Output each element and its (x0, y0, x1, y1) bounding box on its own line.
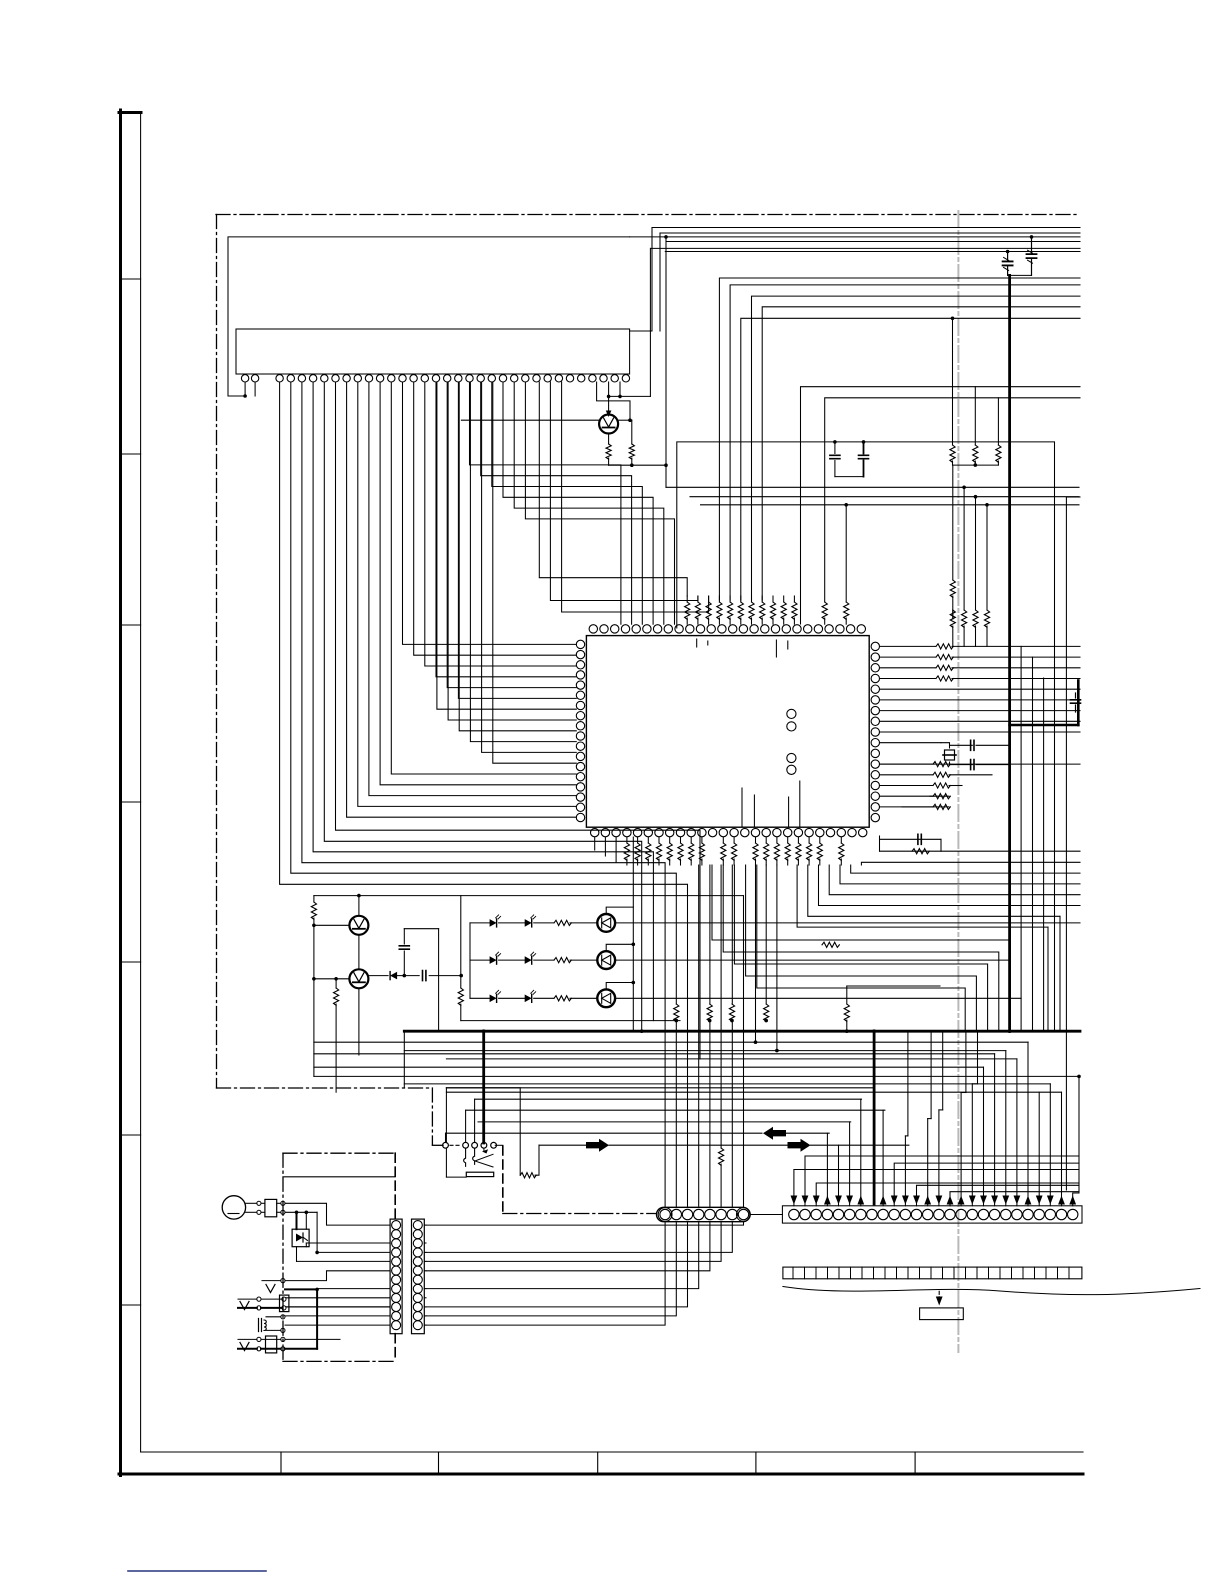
wire bus: CN pins 12-17 to IC left pins 1-6 (403, 382, 577, 698)
resistor bank R3-R5 (3 vertical) (950, 318, 1001, 467)
wire bus: CN pins 7-11 to IC left pins 13-17 (347, 382, 577, 817)
loop wire around IC top (677, 442, 1055, 1031)
IC U1 inner marks (697, 639, 800, 826)
thick ground rail horizontal (404, 1029, 1080, 1052)
transistor Q1 (599, 415, 618, 434)
wire: R1 R2 common (609, 463, 668, 467)
resistor R2 (629, 420, 634, 465)
label box (920, 1308, 964, 1320)
resistor R10 near switch (520, 1088, 539, 1178)
ground symbol G1 (262, 1279, 285, 1293)
resistors on IC right pins 12-16 (880, 762, 1081, 810)
wire: top bus y237 to right (630, 236, 1080, 238)
wire staircase under IC right (797, 862, 1080, 1031)
bottom bus wires band1 (314, 1042, 1079, 1076)
resistor R1 below Q1 (606, 433, 611, 465)
CN5 exit stubs (424, 1225, 426, 1325)
inductor L1 (259, 1315, 390, 1333)
LED matrix 3 rows (470, 915, 597, 1002)
stadium riser wires (699, 865, 744, 1207)
wire mesh below IC (712, 865, 1010, 1031)
main board dash-dot boundary (216, 215, 1080, 1146)
ribbon cable strip (783, 1267, 1082, 1279)
transistor Q3 (349, 969, 368, 988)
wire bus: CN pins 1-5 long drops under IC (280, 382, 688, 1207)
slide switch S1 (443, 1088, 520, 1177)
connector CN4 column A (390, 1219, 402, 1334)
optocoupler wires (297, 1243, 390, 1261)
thick supply rail vertical (1008, 275, 1011, 1031)
optocoupler U2 (292, 1229, 309, 1247)
capacitor C4 (859, 440, 869, 477)
wire: CN last pins bracket (597, 248, 651, 420)
connector CN3 box (782, 1206, 1082, 1223)
bottom bus extras (314, 1054, 1062, 1092)
IC bottom pin stubs (595, 837, 616, 862)
wire bus: feeds to IC left pins 7-12 (437, 382, 576, 763)
wire: motor - rail (285, 1211, 319, 1255)
wire: rail stub (403, 1031, 405, 1088)
bus wires top-right horizontal (651, 228, 1080, 252)
bus elbows mid-right (801, 387, 1081, 624)
wire: C1 C2 join + junction dots (1006, 235, 1033, 275)
wire: CN pin1/pin2 ground loop (228, 237, 630, 398)
module dash-dot box (283, 1153, 395, 1361)
wire: stadium to CN3 (750, 1214, 782, 1216)
switch circle risers (432, 1099, 474, 1145)
transistor Q2 (349, 916, 368, 935)
switch S2 bottom (238, 1336, 340, 1353)
IC right pin wires (880, 689, 1081, 732)
resistor row below IC (624, 837, 844, 865)
dash-dot boundary elbow to bottom connector (503, 1146, 656, 1214)
stadium connector CN2 (657, 1207, 751, 1221)
lower bus wires band2 (446, 1088, 885, 1122)
capacitor C2 (electrolytic) (1027, 254, 1037, 258)
Q2 Q3 wiring (311, 894, 743, 1092)
footer link underline (blue) (128, 1570, 266, 1572)
jack J1 (238, 1295, 389, 1312)
connector CN3 pins (789, 1209, 1078, 1219)
IC U1 top pins (589, 625, 865, 633)
capacitor + resistor pair under IC right (880, 834, 1081, 854)
direction arrow left (446, 1127, 830, 1140)
resistor R9 on mesh (822, 942, 839, 947)
gray center dash-dot fold line (957, 211, 959, 1352)
page border frame (left + bottom rules) (119, 110, 1083, 1476)
stadium to module staircase (426, 1222, 744, 1325)
thick drop to switch (482, 1031, 485, 1143)
resistor R8 + quad resistors right-mid (690, 465, 1079, 646)
IC U1 bottom pins (591, 828, 867, 836)
resistor row above IC (685, 596, 797, 624)
wire: G1 to CN4 (285, 1271, 389, 1281)
thick drop to connector (873, 1031, 876, 1204)
resistors on IC right pins 1-4 (880, 644, 1081, 681)
connector CN top box (236, 329, 630, 374)
bus elbows to IC top pins (719, 278, 1080, 600)
bus verticals from top-left ends (630, 228, 1079, 488)
direction arrow right 1 (539, 1139, 787, 1152)
direction arrow right 2 (788, 1139, 909, 1152)
long drops below IC (756, 865, 777, 1051)
wire: CN pin 6 drop under IC (336, 382, 701, 1059)
IC U1 right pins (871, 642, 879, 822)
wavy tear line (783, 1287, 1200, 1295)
connector CN5 column B (412, 1219, 425, 1334)
IC U1 left pins (576, 640, 584, 822)
wire: motor + to CN4 (285, 1203, 389, 1225)
resistor R6 R7 above IC right (822, 503, 849, 624)
crystal X1 and caps (880, 740, 1010, 769)
right vertical bus (1021, 497, 1080, 1190)
shunt resistors above 1020 rail (674, 865, 940, 1031)
dashed pointer arrow (936, 1291, 943, 1305)
LED driver wires (606, 837, 1080, 1031)
capacitor C1 (electrolytic) (1003, 261, 1013, 265)
capacitor C3 (830, 440, 864, 477)
motor M1 (222, 1196, 285, 1219)
connector CN3 entry wires with direction arrows (791, 1031, 1081, 1206)
connector CN top pins (241, 375, 629, 382)
wire: bold net (285, 1288, 389, 1349)
wire bus: CN pins 18-26 staircase to IC top pins (470, 382, 709, 624)
IC U1 body (586, 636, 869, 828)
thick net L-shape right (1010, 681, 1081, 726)
wire: Q1 base feed (461, 418, 631, 422)
LED driver transistors Q4-Q6 (597, 914, 615, 1007)
